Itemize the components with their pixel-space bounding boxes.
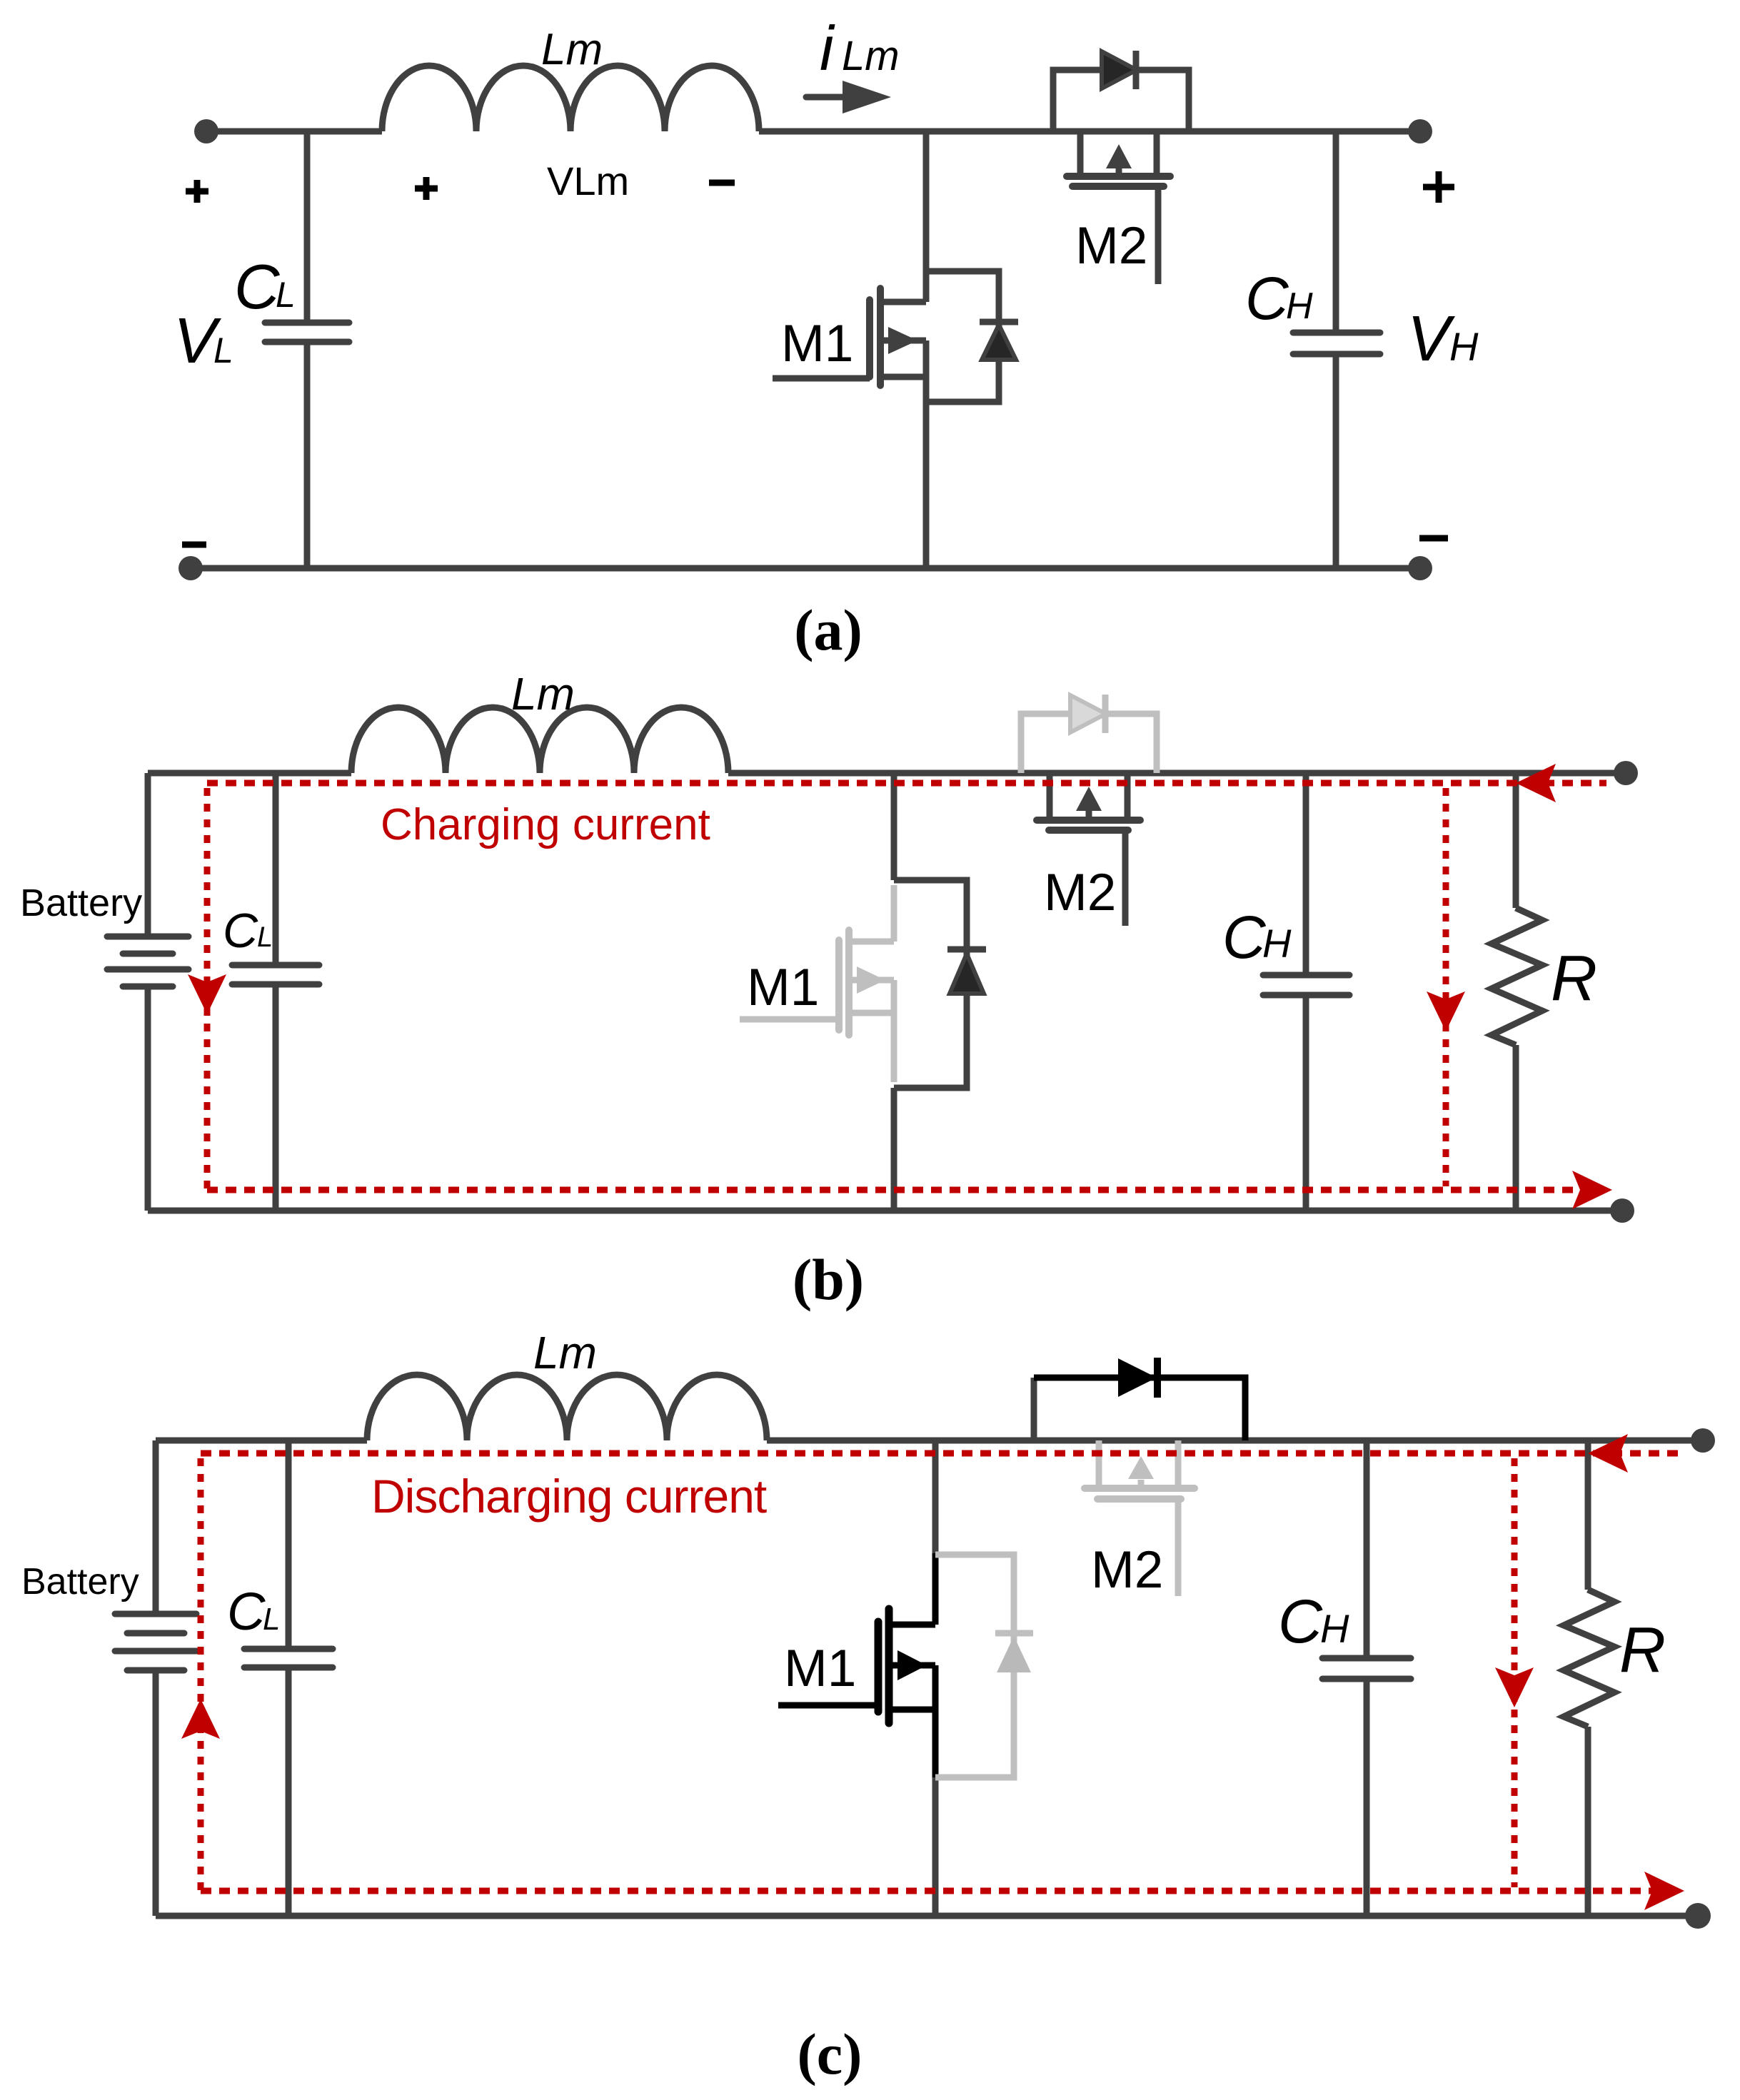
capacitor CH (c) plates	[1322, 1658, 1411, 1679]
diode M2 external (b) inactive cathode bar	[1102, 695, 1109, 733]
wire M2 diode loop top and right (c)	[1034, 1378, 1245, 1440]
transistor M1 (a) bulk arrow	[880, 338, 926, 344]
transistor M1 (a) bulk vertical	[923, 340, 930, 377]
wire top rail right (c)	[767, 1438, 1703, 1444]
transistor M2 (a) gate lead	[1155, 186, 1162, 284]
svg-text:C: C	[223, 904, 258, 958]
plus sign VLm (a)	[415, 177, 438, 200]
battery (b) bottom lead	[145, 986, 151, 1211]
transistor M2 (c) inactive channel bar	[1085, 1485, 1195, 1492]
transistor M1 (c) channel bar	[885, 1609, 893, 1723]
transistor M2 (a) bulk arrow	[1116, 168, 1122, 176]
transistor M2 (a) drain lead	[1077, 131, 1084, 176]
wire top rail left (c)	[156, 1438, 367, 1444]
transistor M1 (b) inactive channel bar	[845, 930, 853, 1035]
wire M2 diode loop (a)	[1053, 70, 1189, 131]
wire M1 body-diode loop (c) inactive	[935, 1555, 1014, 1777]
wire M2 diode loop left vertical (c)	[1031, 1378, 1037, 1440]
transistor M1 (c) bulk arrow	[889, 1662, 935, 1669]
wire M1 source vertical (c)	[932, 1777, 939, 1916]
wire charging path top dashed (b)	[207, 780, 1606, 787]
transistor M2 (c) inactive bulk arrow	[1138, 1480, 1145, 1488]
transistor M1 (a) gate bar	[866, 300, 873, 377]
svg-text:L: L	[276, 275, 296, 315]
transistor M2 (b) bulk arrow	[1086, 811, 1092, 820]
wire M1 body-diode loop (a)	[926, 271, 999, 402]
diode M2 external (b) inactive triangle	[1070, 695, 1106, 732]
transistor M1 (c) source vertical	[932, 1710, 939, 1777]
svg-text:Battery: Battery	[21, 1561, 139, 1602]
plus sign VH (a)	[1423, 171, 1454, 203]
transistor M2 (c) inactive source lead	[1175, 1440, 1182, 1488]
wire M1 drain vertical (b)	[891, 773, 897, 880]
capacitor CL (b) plates	[232, 965, 319, 984]
transistor M1 (b) inactive drain vertical	[891, 885, 897, 942]
node top-right terminal (a)	[1408, 119, 1432, 143]
node bottom-left terminal (a)	[178, 556, 203, 580]
battery (c) top lead	[153, 1440, 159, 1614]
arrowhead charging current left (b)	[188, 974, 226, 1014]
svg-text:Lm: Lm	[533, 1327, 597, 1378]
svg-text:Charging current: Charging current	[381, 800, 710, 849]
node bottom-right terminal (a)	[1408, 556, 1432, 580]
diode M1 body (a) cathode bar	[980, 319, 1018, 325]
svg-text:M1: M1	[781, 315, 853, 373]
wire discharging path load-branch dashed (c)	[1512, 1458, 1518, 1887]
transistor M1 (a) source lead	[880, 374, 926, 380]
current arrow iLm (a)	[806, 94, 844, 101]
plus sign VL (a)	[186, 180, 208, 203]
battery (c) bottom lead	[153, 1670, 159, 1916]
wire bottom rail (a)	[191, 565, 1420, 572]
capacitor CH (a) plates	[1293, 333, 1380, 354]
transistor M2 (a) channel bar	[1067, 173, 1170, 180]
transistor M1 (c) drain lead	[889, 1622, 935, 1628]
wire M1 source vertical (a)	[923, 377, 930, 568]
arrowhead discharging current bottom (c)	[1644, 1872, 1684, 1910]
transistor M1 (b) inactive bulk vertical	[891, 980, 897, 1013]
svg-text:i: i	[820, 13, 835, 84]
svg-text:(b): (b)	[793, 1247, 864, 1312]
transistor M1 (c) gate lead	[778, 1702, 878, 1709]
transistor M2 (a) gate bar	[1072, 183, 1164, 190]
resistor R (b) zigzag	[1492, 908, 1542, 1045]
transistor M1 (c) drain vertical	[932, 1553, 939, 1625]
diode M2 external (a) cathode bar	[1133, 51, 1140, 89]
diode M1 body (c) inactive triangle	[997, 1636, 1031, 1672]
inductor Lm (c)	[367, 1375, 767, 1440]
transistor M2 (b) gate lead	[1122, 830, 1129, 926]
svg-text:H: H	[1262, 921, 1292, 966]
wire M1 drain vertical (a)	[923, 131, 930, 302]
resistor R (b) top lead	[1513, 773, 1519, 908]
svg-text:M2: M2	[1091, 1541, 1163, 1599]
capacitor CH (b) plates	[1263, 975, 1349, 995]
capacitor CL (b) leads	[273, 773, 279, 1211]
transistor M2 (b) gate bar	[1049, 827, 1128, 834]
svg-text:M2: M2	[1044, 864, 1116, 922]
inductor Lm (a)	[382, 66, 759, 131]
transistor M1 (a) drain lead	[880, 299, 926, 306]
capacitor CL (a) plates	[265, 323, 349, 342]
minus sign VH (a)	[1419, 535, 1448, 542]
svg-text:L: L	[257, 922, 273, 953]
wire charging path left dashed (b)	[204, 788, 211, 1190]
capacitor CL (c) leads	[286, 1440, 292, 1916]
transistor M1 (b) inactive gate lead	[740, 1016, 839, 1023]
svg-text:L: L	[213, 330, 233, 370]
wire bottom rail (b)	[148, 1208, 1622, 1214]
transistor M2 (b) source lead	[1125, 773, 1131, 820]
svg-text:C: C	[1222, 904, 1267, 971]
svg-text:H: H	[1320, 1606, 1349, 1651]
transistor M2 (b) drain lead	[1047, 773, 1053, 820]
minus sign VLm (a)	[709, 180, 735, 186]
diode M1 body (b) triangle	[950, 954, 984, 994]
svg-text:V: V	[1407, 303, 1456, 375]
resistor R (c) top lead	[1585, 1440, 1591, 1590]
transistor M2 (c) inactive drain lead	[1096, 1440, 1102, 1488]
svg-text:(a): (a)	[794, 597, 863, 662]
transistor M2 (b) channel bar	[1037, 817, 1140, 824]
transistor M1 (c) gate bar	[875, 1622, 882, 1712]
svg-text:Lm: Lm	[511, 668, 575, 720]
diode M1 body (b) cathode bar	[947, 946, 986, 953]
battery (b) plates	[107, 937, 188, 986]
node bottom-right terminal (c)	[1685, 1903, 1711, 1929]
svg-text:C: C	[234, 251, 281, 322]
svg-text:Lm: Lm	[842, 33, 900, 79]
svg-text:M1: M1	[784, 1640, 856, 1697]
svg-text:C: C	[227, 1582, 266, 1641]
capacitor CH (a) leads	[1333, 131, 1339, 568]
wire top rail right (a)	[759, 128, 1420, 135]
capacitor CL (c) plates	[244, 1649, 333, 1667]
transistor M1 (b) inactive source vertical	[891, 1013, 897, 1082]
svg-text:H: H	[1449, 324, 1479, 369]
svg-text:L: L	[263, 1602, 280, 1637]
transistor M1 (c) bulk vertical	[932, 1665, 939, 1710]
node top-left terminal (a)	[194, 119, 218, 143]
diode M2 external (c) triangle	[1118, 1358, 1157, 1397]
arrowhead discharging current top (c)	[1588, 1434, 1628, 1473]
transistor M1 (b) inactive gate bar	[835, 940, 843, 1030]
transistor M1 (c) source lead	[889, 1707, 935, 1713]
wire bottom rail (c)	[156, 1913, 1698, 1919]
svg-text:C: C	[1245, 265, 1289, 332]
svg-text:M1: M1	[747, 959, 819, 1016]
wire M1 body-diode loop (b)	[894, 880, 967, 1088]
diode M2 external (c) cathode bar	[1154, 1358, 1161, 1398]
wire discharging path top dashed (c)	[201, 1450, 1678, 1457]
transistor M1 (a) channel bar	[877, 288, 884, 385]
svg-text:R: R	[1551, 943, 1597, 1014]
svg-text:Lm: Lm	[541, 25, 603, 74]
transistor M1 (b) inactive bulk arrow	[849, 977, 894, 984]
node bottom-right terminal (b)	[1610, 1198, 1634, 1223]
resistor R (c) bottom lead	[1585, 1727, 1591, 1916]
wire top rail left (a)	[206, 128, 382, 135]
arrowhead discharging current left (c)	[181, 1699, 220, 1739]
minus sign VL (a)	[182, 542, 206, 548]
resistor R (c) zigzag	[1564, 1590, 1614, 1727]
transistor M1 (b) inactive source lead	[849, 1010, 894, 1016]
battery (c) plates	[115, 1614, 196, 1670]
diode M1 body (c) inactive cathode bar	[995, 1630, 1033, 1637]
battery (b) top lead	[145, 773, 151, 937]
inductor Lm (b)	[351, 707, 728, 773]
svg-text:R: R	[1619, 1615, 1666, 1686]
transistor M2 (c) inactive gate lead	[1175, 1499, 1182, 1596]
diode M2 external (a) triangle	[1102, 51, 1137, 89]
transistor M1 (a) gate lead	[773, 375, 870, 382]
node top-right terminal (c)	[1691, 1428, 1715, 1453]
wire M1 source vertical (b)	[891, 1088, 897, 1211]
wire M1 drain vertical (c)	[932, 1440, 939, 1553]
wire top rail left (b)	[148, 770, 351, 777]
wire discharging path left dashed (c)	[198, 1458, 204, 1891]
arrowhead discharging current load branch (c)	[1495, 1667, 1534, 1707]
diode M1 body (a) triangle	[982, 325, 1016, 360]
wire charging path load-branch dashed (b)	[1443, 788, 1449, 1186]
svg-text:VLm: VLm	[547, 158, 629, 203]
transistor M1 (b) inactive drain lead	[849, 939, 894, 945]
svg-text:(c): (c)	[797, 2021, 862, 2086]
arrowhead charging current top (b)	[1516, 764, 1556, 802]
wire discharging path bottom dashed (c)	[201, 1888, 1653, 1894]
svg-text:Battery: Battery	[20, 882, 142, 924]
resistor R (b) bottom lead	[1513, 1045, 1519, 1211]
capacitor CH (c) leads	[1364, 1440, 1370, 1916]
svg-text:H: H	[1286, 286, 1313, 327]
wire charging path bottom dashed (b)	[207, 1187, 1574, 1193]
arrowhead charging current load branch (b)	[1427, 991, 1465, 1031]
node top-right terminal (b)	[1614, 761, 1638, 785]
transistor M2 (a) source lead	[1154, 131, 1160, 176]
transistor M2 (c) inactive gate bar	[1097, 1495, 1181, 1503]
capacitor CL (a) leads	[304, 131, 311, 568]
svg-text:M2: M2	[1075, 217, 1147, 275]
svg-text:Discharging current: Discharging current	[371, 1470, 767, 1523]
arrowhead charging current bottom (b)	[1572, 1171, 1612, 1209]
capacitor CH (b) leads	[1303, 773, 1309, 1211]
wire top rail right (b)	[728, 770, 1626, 777]
wire M2 diode loop (b) inactive	[1021, 714, 1157, 773]
svg-text:C: C	[1278, 1587, 1323, 1656]
